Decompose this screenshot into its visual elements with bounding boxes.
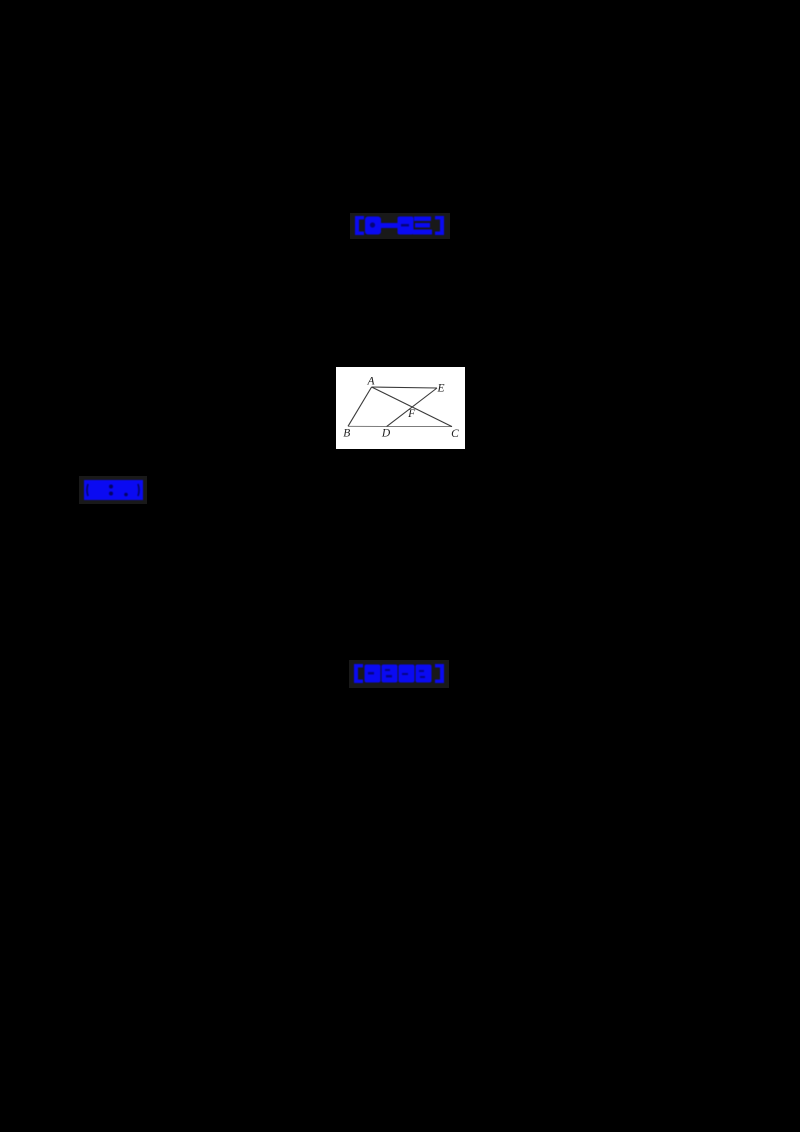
svg-text:F: F (407, 408, 416, 420)
char 1 blob (365, 217, 381, 235)
wire AC (372, 387, 452, 427)
figure box (336, 367, 465, 449)
char 2 bar (381, 223, 398, 228)
bracket right (435, 664, 444, 683)
heading H1 blue title [ju yi fan san] (354, 216, 445, 235)
svg-text:E: E (436, 383, 444, 395)
wire AE (372, 387, 437, 388)
svg-text:D: D (381, 428, 391, 440)
wire DE (387, 388, 437, 427)
svg-text:B: B (343, 428, 350, 440)
wire BC (348, 425, 452, 427)
svg-text:C: C (451, 428, 459, 440)
char 3 blob (398, 217, 414, 235)
bracket left (355, 216, 364, 235)
heading H3 halo (349, 660, 449, 688)
heading H1 halo (350, 213, 450, 239)
char 4 three bars (413, 217, 432, 235)
svg-text:A: A (366, 376, 375, 388)
heading H3 blue title [fang fa dian bo] (353, 664, 445, 683)
bracket right (435, 216, 444, 235)
wire AB (348, 387, 372, 426)
bracket left (354, 664, 363, 683)
heading H2 halo (79, 476, 147, 504)
heading H2 blue title [bian shi] (84, 480, 143, 500)
